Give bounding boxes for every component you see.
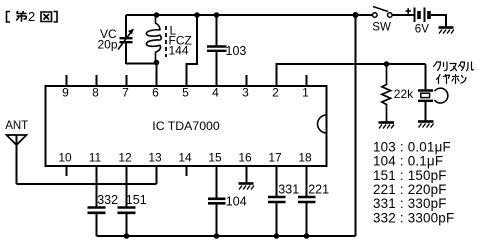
wire tank bottom — [126, 63, 156, 65]
svg-text:1: 1 — [302, 86, 309, 100]
node: rail junction at riser — [353, 12, 359, 18]
svg-text:104: 104 — [226, 195, 247, 209]
wire pin 2 to earphone — [277, 64, 426, 86]
svg-text:151: 151 — [126, 193, 147, 207]
node: junction at 22k resistor — [384, 61, 390, 67]
battery 6V — [406, 8, 430, 36]
svg-text:14: 14 — [178, 150, 192, 164]
svg-text:6: 6 — [152, 86, 159, 100]
pin stubs top (9,8,7,3,1) — [67, 75, 307, 86]
capacitor C 221 (pin 18) — [298, 166, 329, 236]
svg-text:104 : 0.1μF: 104 : 0.1μF — [373, 154, 443, 169]
svg-text:7: 7 — [122, 86, 129, 100]
svg-text:144: 144 — [169, 44, 189, 58]
wire rail to bus (right riser) — [355, 15, 357, 236]
switch SW — [372, 7, 392, 34]
node: bus junction at C151 — [124, 233, 130, 239]
resistor R 22k — [382, 64, 414, 122]
node: bus junction at C331 — [274, 233, 280, 239]
wire switch to battery — [392, 14, 414, 16]
svg-text:331 : 330pF: 331 : 330pF — [373, 196, 447, 211]
node: bus junction at C104 — [214, 233, 220, 239]
wire ground bus — [97, 235, 356, 237]
svg-text:103 : 0.01μF: 103 : 0.01μF — [373, 139, 451, 154]
svg-text:SW: SW — [372, 22, 391, 34]
svg-text:6V: 6V — [415, 23, 429, 35]
svg-text:5: 5 — [182, 86, 189, 100]
top rail wire — [126, 14, 373, 16]
capacitor C 332 (pin 11) — [88, 166, 119, 236]
node: pin5 rail junction — [194, 12, 200, 18]
svg-text:103: 103 — [226, 44, 247, 58]
ground (pin 16) — [239, 166, 255, 190]
antenna ANT — [5, 120, 28, 184]
svg-text:2: 2 — [272, 86, 279, 100]
pin number labels top — [62, 86, 309, 100]
inductor L FCZ 144 — [146, 15, 191, 62]
capacitor C 104 (pin 15) — [208, 166, 247, 236]
pin number labels bottom — [58, 150, 312, 164]
svg-text:16: 16 — [238, 150, 252, 164]
svg-text:332: 332 — [97, 193, 118, 207]
svg-text:332 : 3300pF: 332 : 3300pF — [373, 211, 454, 226]
figure title [第2図] — [7, 11, 58, 22]
capacitor C 151 (pin 12) — [118, 166, 147, 236]
svg-text:17: 17 — [268, 150, 282, 164]
wire battery to ground — [431, 15, 446, 27]
svg-text:9: 9 — [62, 86, 69, 100]
svg-text:IC TDA7000: IC TDA7000 — [152, 119, 220, 133]
ground (earphone) — [418, 122, 434, 128]
svg-text:11: 11 — [89, 150, 102, 164]
pin stubs bottom (10,14) — [67, 166, 187, 176]
svg-text:4: 4 — [212, 86, 219, 100]
svg-text:18: 18 — [298, 150, 312, 164]
svg-text:22k: 22k — [394, 87, 414, 101]
capacitor C 103 (pin 4) — [207, 15, 246, 86]
variable capacitor VC 20p — [98, 15, 135, 64]
capacitor C 331 (pin 17) — [268, 166, 299, 236]
svg-text:2: 2 — [28, 9, 35, 24]
wire pin 13 stub — [156, 166, 158, 184]
svg-text:221: 221 — [308, 183, 329, 197]
svg-text:331: 331 — [278, 183, 299, 197]
svg-text:151 : 150pF: 151 : 150pF — [373, 168, 447, 183]
svg-text:10: 10 — [58, 150, 72, 164]
svg-text:ANT: ANT — [5, 120, 28, 132]
IC TDA7000 body — [46, 86, 327, 166]
node: inductor top junction — [154, 12, 160, 18]
ground (battery) — [439, 28, 455, 34]
wire pin 5 to rail — [187, 15, 198, 86]
node: cap103 rail junction — [214, 12, 220, 18]
svg-text:13: 13 — [148, 150, 162, 164]
svg-text:20p: 20p — [98, 38, 118, 52]
svg-text:12: 12 — [118, 150, 132, 164]
wire ANT to pin 13 — [17, 183, 157, 185]
svg-text:15: 15 — [208, 150, 222, 164]
crystal earphone — [418, 64, 448, 121]
node: bus junction at C221 — [304, 233, 310, 239]
ground (22k) — [379, 123, 395, 129]
wire tank to pin 6 — [156, 63, 158, 87]
label クリスタル (crystal) — [434, 62, 474, 71]
svg-text:3: 3 — [242, 86, 249, 100]
svg-text:8: 8 — [92, 86, 99, 100]
node: inductor bottom junction — [154, 60, 160, 66]
svg-text:221 : 220pF: 221 : 220pF — [373, 182, 447, 197]
label イヤホン (earphone) — [437, 75, 467, 84]
